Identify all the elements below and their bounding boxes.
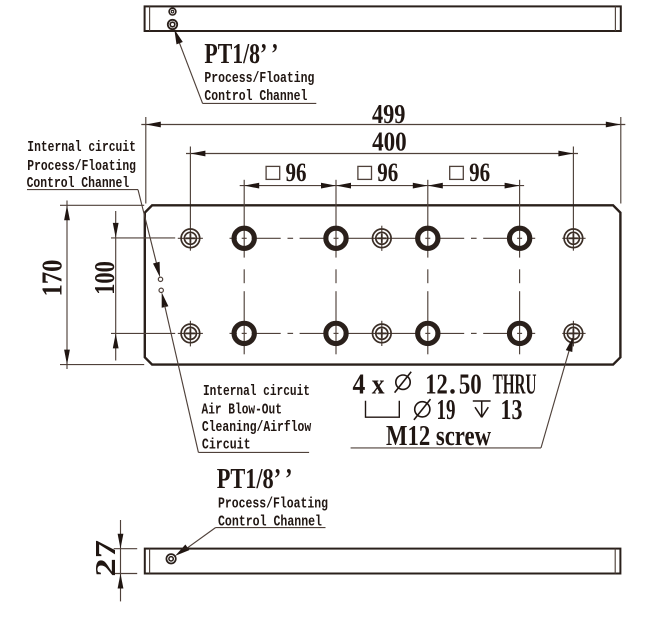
svg-text:Cleaning/Airflow: Cleaning/Airflow [202,420,312,436]
svg-text:170: 170 [37,260,69,297]
svg-text:Process/Floating: Process/Floating [218,497,328,513]
svg-text:PT1/8’ ’: PT1/8’ ’ [217,463,293,495]
svg-text:Circuit: Circuit [202,437,251,453]
svg-text:96: 96 [377,158,398,187]
svg-text:Internal circuit: Internal circuit [203,384,310,400]
svg-text:27: 27 [91,540,122,577]
svg-text:13: 13 [501,395,523,426]
svg-text:4 x: 4 x [353,369,385,401]
svg-text:100: 100 [90,261,121,295]
svg-text:499: 499 [372,99,406,129]
svg-text:PT1/8’ ’: PT1/8’ ’ [204,38,278,70]
svg-text:96: 96 [286,158,307,187]
svg-text:Control Channel: Control Channel [218,515,322,531]
svg-text:Process/Floating: Process/Floating [204,71,314,87]
svg-text:400: 400 [372,127,407,157]
svg-text:Control Channel: Control Channel [204,89,307,105]
svg-text:Process/Floating: Process/Floating [27,159,136,175]
svg-text:Internal circuit: Internal circuit [27,140,136,156]
svg-text:Air Blow-Out: Air Blow-Out [202,403,282,419]
svg-text:96: 96 [469,158,490,187]
svg-text:50: 50 [459,370,482,401]
